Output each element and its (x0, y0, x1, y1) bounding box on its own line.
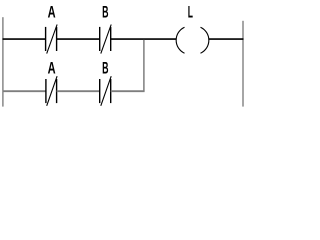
contact B rung1 right bar (110, 27, 112, 51)
wire rung1: contact A to contact B (57, 38, 100, 40)
contact A rung1 NC slash (47, 25, 57, 54)
contact A rung2 right bar (56, 79, 58, 103)
wire rung2: contact A to contact B (57, 90, 100, 92)
wire rung1: contact B to coil (111, 38, 177, 40)
contact A rung1 left bar (45, 27, 47, 51)
contact A rung1 right bar (56, 27, 58, 51)
wire rung2: left rail to contact A (3, 90, 46, 92)
coil L left arc (176, 27, 184, 53)
left power rail (2, 17, 4, 106)
contact B rung1 left bar (99, 27, 101, 51)
contact B rung2 right bar (110, 79, 112, 103)
contact A rung2 left bar (45, 79, 47, 103)
right power rail (242, 21, 244, 107)
contact B rung2 left bar (99, 79, 101, 103)
contact B rung1 NC slash (101, 25, 111, 54)
wire rung1: left rail to contact A (3, 38, 46, 40)
svg-text:A: A (48, 59, 56, 78)
wire rung1: coil to right rail (209, 38, 244, 40)
wire rung2: contact B to riser corner (111, 90, 145, 92)
svg-text:L: L (188, 3, 193, 22)
contact B rung2 NC slash (101, 76, 111, 106)
svg-text:B: B (102, 59, 108, 78)
coil L right arc (201, 27, 209, 53)
svg-text:A: A (48, 3, 56, 22)
contact A rung2 NC slash (47, 76, 57, 106)
svg-text:B: B (102, 3, 108, 22)
branch riser wire (junction to rung2) (143, 40, 145, 91)
